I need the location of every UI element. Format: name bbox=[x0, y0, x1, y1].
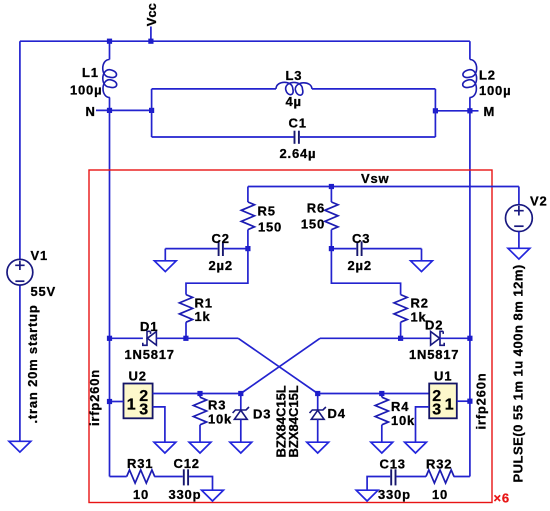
ground C12 bbox=[202, 490, 224, 501]
svg-text:150: 150 bbox=[301, 217, 325, 232]
svg-text:R3: R3 bbox=[208, 398, 226, 413]
wire D1 junction right bbox=[186, 337, 238, 339]
svg-text:R2: R2 bbox=[411, 296, 429, 311]
inductor L3 bbox=[152, 82, 436, 95]
svg-text:L1: L1 bbox=[82, 65, 99, 80]
wire diagonal cross B bbox=[241, 338, 320, 393]
mosfet U1 bbox=[429, 384, 457, 419]
svg-text:R32: R32 bbox=[426, 457, 452, 472]
wire left rail to V1 bbox=[19, 41, 21, 259]
wire D1 to junction bbox=[156, 337, 186, 339]
value 100µ bbox=[70, 83, 102, 98]
svg-text:1: 1 bbox=[127, 397, 136, 414]
svg-text:100µ: 100µ bbox=[70, 83, 102, 98]
pin 3 U1 bbox=[432, 402, 441, 419]
svg-text:330p: 330p bbox=[378, 487, 411, 502]
resistor R4 bbox=[375, 394, 388, 443]
node junction N bbox=[107, 108, 112, 113]
resistor R32 bbox=[426, 470, 470, 483]
svg-text:D4: D4 bbox=[328, 406, 346, 421]
ground C2 bbox=[154, 261, 176, 272]
value irfp260n U1 bbox=[474, 373, 489, 430]
value 1k bbox=[195, 309, 211, 324]
value 150 bbox=[301, 217, 325, 232]
node junction R2/D2 bbox=[398, 336, 403, 341]
svg-text:irfp260n: irfp260n bbox=[474, 373, 489, 430]
wire diagonal cross A bbox=[238, 338, 318, 393]
wire C2 junction down-left to R1 bbox=[186, 249, 248, 295]
pin 1 U2 bbox=[127, 397, 136, 414]
value 2.64µ bbox=[280, 146, 317, 161]
label R5 bbox=[258, 204, 276, 219]
node junction R4 top bbox=[379, 391, 384, 396]
node junction tank right bbox=[433, 108, 438, 113]
value 1N5817 bbox=[409, 347, 459, 362]
label N bbox=[86, 104, 96, 119]
label U1 bbox=[434, 369, 452, 384]
svg-text:1: 1 bbox=[445, 397, 454, 414]
wire U1 pin2 row bbox=[318, 393, 430, 395]
label D4 bbox=[328, 406, 346, 421]
svg-text:C13: C13 bbox=[380, 457, 406, 472]
wire R2 junction to D2 bbox=[401, 337, 431, 339]
pin 3 U2 bbox=[139, 402, 148, 419]
node junction R5/C2 bbox=[245, 246, 250, 251]
svg-text:L2: L2 bbox=[479, 68, 496, 83]
ground R4 bbox=[371, 442, 393, 453]
left rail N down to R31 bbox=[109, 110, 111, 476]
value irfp260n U2 bbox=[87, 369, 102, 426]
svg-text:150: 150 bbox=[258, 220, 282, 235]
svg-text:R5: R5 bbox=[258, 204, 276, 219]
value 10 bbox=[432, 487, 448, 502]
wire V2 bottom bbox=[518, 232, 520, 249]
svg-text:C2: C2 bbox=[212, 231, 230, 246]
svg-text:C3: C3 bbox=[352, 231, 370, 246]
svg-text:2µ2: 2µ2 bbox=[209, 258, 233, 273]
node junction tank left bbox=[149, 108, 154, 113]
resistor R5 bbox=[241, 187, 254, 249]
node junction D4 top bbox=[315, 391, 320, 396]
svg-text:55V: 55V bbox=[31, 284, 57, 299]
label C12 bbox=[174, 456, 200, 471]
capacitor C1 bbox=[152, 131, 436, 144]
svg-text:R6: R6 bbox=[307, 201, 325, 216]
value 330p bbox=[169, 487, 202, 502]
value BZX84C15L (D4) bbox=[286, 385, 301, 457]
label V2 bbox=[530, 194, 548, 209]
svg-text:3: 3 bbox=[139, 402, 148, 419]
resistor R3 bbox=[193, 394, 206, 443]
right rail M down to R32 bbox=[469, 111, 471, 477]
voltage source V2 bbox=[506, 205, 533, 232]
wire D1 row left bbox=[110, 337, 143, 339]
svg-text:PULSE(0 55 1m 1u 400n 8m 12m): PULSE(0 55 1m 1u 400n 8m 12m) bbox=[511, 264, 526, 482]
svg-text:1N5817: 1N5817 bbox=[125, 347, 175, 362]
value 100µ bbox=[479, 83, 511, 98]
ground R3 bbox=[189, 442, 211, 453]
svg-text:1k: 1k bbox=[195, 309, 211, 324]
label C13 bbox=[380, 457, 406, 472]
wire U1 pin1 bbox=[457, 400, 470, 402]
value 55V bbox=[31, 284, 57, 299]
value 10k bbox=[391, 413, 415, 428]
svg-text:irfp260n: irfp260n bbox=[87, 369, 102, 426]
label C1 bbox=[289, 116, 307, 131]
svg-text:Vcc: Vcc bbox=[144, 3, 159, 26]
svg-text:3: 3 bbox=[432, 402, 441, 419]
svg-text:V1: V1 bbox=[31, 248, 49, 263]
label R4 bbox=[391, 399, 409, 414]
diode D2 (schottky, pointing right) bbox=[431, 331, 445, 345]
node junction D3 top bbox=[238, 391, 243, 396]
label R3 bbox=[208, 398, 226, 413]
wire tank left vertical bbox=[151, 89, 153, 137]
capacitor C3 bbox=[331, 241, 421, 256]
ground D4 bbox=[307, 442, 329, 453]
wire U2 pin3 to ground bbox=[153, 407, 165, 442]
label L3 bbox=[286, 68, 303, 83]
label R31 bbox=[127, 456, 153, 471]
svg-text:330p: 330p bbox=[169, 487, 202, 502]
value 1k bbox=[411, 310, 427, 325]
net Vsw rail bbox=[248, 186, 519, 188]
label L2 bbox=[479, 68, 496, 83]
wire D2 row left bbox=[320, 337, 401, 339]
svg-text:100µ: 100µ bbox=[479, 83, 511, 98]
svg-text:C1: C1 bbox=[289, 116, 307, 131]
svg-text:V2: V2 bbox=[530, 194, 548, 209]
svg-text:N: N bbox=[86, 104, 96, 119]
value 2µ2 bbox=[209, 258, 233, 273]
red subcircuit box bbox=[89, 170, 492, 503]
svg-text:C12: C12 bbox=[174, 456, 200, 471]
svg-text:R31: R31 bbox=[127, 456, 153, 471]
value 4µ bbox=[286, 94, 302, 109]
wire U1 pin3 to ground bbox=[416, 407, 430, 442]
node junction R6/C3 bbox=[329, 246, 334, 251]
svg-text:1N5817: 1N5817 bbox=[409, 347, 459, 362]
wire Vcc top rail bbox=[20, 40, 470, 42]
wire U2 pin2 row bbox=[153, 393, 241, 395]
wire C3 ground stub bbox=[421, 249, 423, 261]
resistor R1 bbox=[179, 295, 192, 339]
node junction D1 left rail bbox=[107, 336, 112, 341]
node junction D1/R1 bbox=[183, 336, 188, 341]
label Vsw bbox=[361, 171, 390, 186]
resistor R6 bbox=[325, 187, 338, 249]
node junction U2 gate rail bbox=[107, 399, 112, 404]
value BZX84C15L (D3) bbox=[273, 385, 288, 457]
svg-text:L3: L3 bbox=[286, 68, 303, 83]
svg-text:U2: U2 bbox=[129, 369, 147, 384]
svg-text:D2: D2 bbox=[425, 318, 443, 333]
wire tank right vertical bbox=[434, 89, 436, 137]
wire V1 bottom to ground bbox=[19, 285, 21, 441]
pin 2 U1 bbox=[432, 388, 441, 405]
label L1 bbox=[82, 65, 99, 80]
wire U2 pin1 bbox=[110, 401, 124, 403]
svg-text:10k: 10k bbox=[391, 413, 415, 428]
value PULSE(0 55 1m 1u 400n 8m 12m) bbox=[511, 264, 526, 482]
svg-text:U1: U1 bbox=[434, 369, 452, 384]
value 1N5817 bbox=[125, 347, 175, 362]
node junction D2 right rail bbox=[467, 336, 472, 341]
ground V1 bbox=[9, 441, 31, 452]
voltage source V1 bbox=[7, 259, 33, 285]
zener D4 bbox=[310, 394, 326, 443]
wire Vsw to V2 bbox=[518, 187, 520, 205]
svg-text:4µ: 4µ bbox=[286, 94, 302, 109]
svg-text:.tran 20m startup: .tran 20m startup bbox=[25, 304, 40, 423]
label x6 bbox=[494, 491, 510, 506]
mosfet U2 bbox=[124, 384, 153, 419]
svg-text:D1: D1 bbox=[140, 319, 158, 334]
svg-text:10: 10 bbox=[133, 487, 149, 502]
capacitor C12 bbox=[184, 469, 213, 490]
capacitor C2 bbox=[165, 241, 248, 256]
ground C3 bbox=[411, 261, 433, 272]
wire C2 ground stub bbox=[164, 249, 166, 261]
label D3 bbox=[253, 407, 271, 422]
pin 2 U2 bbox=[139, 388, 148, 405]
svg-text:2µ2: 2µ2 bbox=[348, 258, 372, 273]
svg-text:BZX84C15L: BZX84C15L bbox=[286, 385, 301, 457]
label D1 bbox=[140, 319, 158, 334]
svg-text:10: 10 bbox=[432, 487, 448, 502]
svg-text:R4: R4 bbox=[391, 399, 409, 414]
diode D1 (schottky, pointing left) bbox=[143, 331, 157, 345]
label R2 bbox=[411, 296, 429, 311]
label D2 bbox=[425, 318, 443, 333]
value 150 bbox=[258, 220, 282, 235]
resistor R2 bbox=[394, 295, 407, 339]
node junction L1 top bbox=[107, 39, 112, 44]
spice directive .tran 20m startup bbox=[25, 304, 40, 423]
ground U2 pin3 bbox=[154, 442, 176, 453]
label R6 bbox=[307, 201, 325, 216]
label V1 bbox=[31, 248, 49, 263]
zener D3 bbox=[233, 394, 249, 443]
node junction Vcc tap bbox=[148, 39, 153, 44]
value 10k bbox=[208, 412, 232, 427]
node N wire bbox=[96, 109, 152, 111]
wire C3 junction down-right to R2 bbox=[331, 249, 400, 295]
label U2 bbox=[129, 369, 147, 384]
svg-text:10k: 10k bbox=[208, 412, 232, 427]
inductor L2 bbox=[463, 41, 477, 111]
flag Vcc bbox=[144, 3, 159, 41]
value 330p bbox=[378, 487, 411, 502]
inductor L1 bbox=[103, 41, 117, 110]
value 10 bbox=[133, 487, 149, 502]
node junction Vsw/R6 bbox=[329, 184, 334, 189]
node junction M bbox=[467, 108, 472, 113]
value 2µ2 bbox=[348, 258, 372, 273]
svg-text:×6: ×6 bbox=[494, 491, 510, 506]
ground C13 bbox=[356, 490, 378, 501]
wire D2 to right rail bbox=[440, 337, 470, 339]
node junction R3 top bbox=[197, 391, 202, 396]
svg-text:D3: D3 bbox=[253, 407, 271, 422]
label C2 bbox=[212, 231, 230, 246]
capacitor C13 bbox=[367, 469, 426, 490]
ground V2 bbox=[508, 248, 530, 259]
svg-text:M: M bbox=[484, 104, 496, 119]
ground U1 pin3 bbox=[405, 442, 427, 453]
svg-text:Vsw: Vsw bbox=[361, 171, 390, 186]
node junction U1 gate rail bbox=[467, 399, 472, 404]
resistor R31 bbox=[110, 470, 183, 483]
label R1 bbox=[195, 296, 213, 311]
pin 1 U1 bbox=[445, 397, 454, 414]
node M wire bbox=[435, 110, 478, 112]
label R32 bbox=[426, 457, 452, 472]
svg-text:2.64µ: 2.64µ bbox=[280, 146, 317, 161]
label C3 bbox=[352, 231, 370, 246]
ground D3 bbox=[230, 442, 252, 453]
label M bbox=[484, 104, 496, 119]
